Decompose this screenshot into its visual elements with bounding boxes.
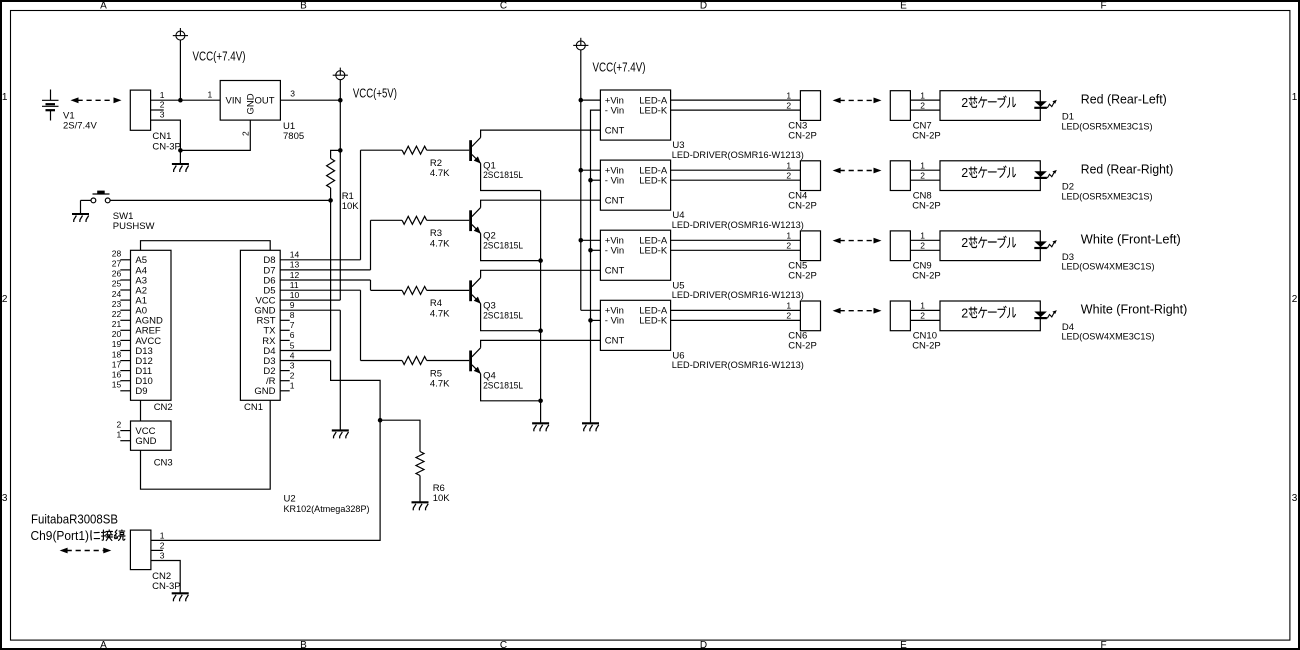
dashed arrow CN3 to CN7 bbox=[833, 98, 882, 104]
dashed arrow CN6 to CN10 bbox=[833, 308, 882, 314]
svg-text:2: 2 bbox=[786, 311, 791, 321]
wire U3 LED-A to CN3 bbox=[671, 99, 801, 101]
svg-text:18: 18 bbox=[112, 349, 122, 359]
svg-text:1: 1 bbox=[786, 90, 791, 100]
svg-text:LED(OSR5XME3C1S): LED(OSR5XME3C1S) bbox=[1062, 191, 1153, 202]
cable box (2-core cable) row 4 bbox=[940, 301, 1040, 331]
emitter ground bus bbox=[540, 191, 542, 423]
svg-text:4.7K: 4.7K bbox=[430, 379, 450, 390]
wire U1 GND pin2 to gnd node bbox=[180, 120, 250, 150]
connector CN3 box bbox=[800, 91, 820, 121]
LED driver U6 box bbox=[600, 300, 670, 350]
wire U5 LED-K to CN5 bbox=[671, 249, 801, 251]
wire SW1 to R1 node bbox=[110, 199, 331, 201]
wire Q2 collector to U4 CNT bbox=[481, 200, 601, 207]
svg-text:9: 9 bbox=[290, 300, 295, 310]
resistor R1 10K bbox=[331, 150, 341, 158]
link CN2 to CN3 bbox=[140, 400, 142, 421]
wire -Vin bus to U4 bbox=[591, 179, 601, 181]
stub CN3 pin1 bbox=[120, 440, 130, 442]
junction +7.4V at U5 bbox=[579, 238, 584, 243]
svg-text:CN-2P: CN-2P bbox=[912, 271, 941, 282]
svg-text:LED-K: LED-K bbox=[639, 176, 668, 187]
svg-text:10K: 10K bbox=[433, 493, 451, 504]
svg-text:1: 1 bbox=[208, 90, 213, 100]
dashed arrow CN5 to CN9 bbox=[833, 238, 882, 244]
wire Q4 emitter to gnd bus bbox=[481, 374, 541, 401]
svg-text:17: 17 bbox=[112, 359, 122, 369]
MCU header CN3 box bbox=[131, 421, 172, 450]
MCU header CN2 box bbox=[131, 250, 172, 400]
svg-text:CN2: CN2 bbox=[154, 402, 173, 413]
power flag VCC(+7.4V) left bbox=[173, 28, 188, 40]
svg-text:CN-2P: CN-2P bbox=[912, 200, 941, 211]
svg-text:- Vin: - Vin bbox=[605, 105, 624, 116]
connector CN1 (CN-3P) box bbox=[130, 90, 150, 130]
stub CN3 pin2 bbox=[120, 430, 130, 432]
svg-text:13: 13 bbox=[290, 260, 300, 270]
connector CN8 box bbox=[890, 161, 910, 191]
svg-text:KR102(Atmega328P): KR102(Atmega328P) bbox=[284, 504, 370, 515]
stub CN2 pin 22 bbox=[120, 319, 130, 321]
svg-text:25: 25 bbox=[112, 279, 122, 289]
resistor R6 10K bbox=[380, 420, 420, 451]
stub CN2 pin 23 bbox=[120, 309, 130, 311]
svg-text:F: F bbox=[1100, 1, 1106, 12]
svg-text:2: 2 bbox=[961, 236, 968, 250]
cable box (2-core cable) row 1 bbox=[940, 91, 1040, 121]
wire CN8 pin2 to cable bbox=[910, 179, 940, 181]
wire CN10 pin1 to cable bbox=[910, 309, 940, 311]
svg-text:1: 1 bbox=[920, 231, 925, 241]
ground under CN2 bbox=[172, 593, 189, 601]
svg-text:2: 2 bbox=[786, 100, 791, 110]
svg-text:E: E bbox=[900, 640, 907, 650]
svg-text:2: 2 bbox=[920, 100, 925, 110]
wire D8 riser to R2 bbox=[360, 150, 362, 260]
svg-text:LED-DRIVER(OSMR16-W1213): LED-DRIVER(OSMR16-W1213) bbox=[672, 290, 804, 301]
LED D1 symbol bbox=[1034, 101, 1047, 107]
svg-text:24: 24 bbox=[112, 289, 122, 299]
svg-text:VCC(+7.4V): VCC(+7.4V) bbox=[593, 60, 646, 74]
svg-text:2: 2 bbox=[961, 96, 968, 110]
svg-text:LED(OSW4XME3C1S): LED(OSW4XME3C1S) bbox=[1062, 262, 1155, 273]
svg-text:3: 3 bbox=[160, 551, 165, 561]
stub CN2 pin 20 bbox=[120, 339, 130, 341]
junction +5V out bbox=[338, 98, 343, 103]
wire D5 pin11 bbox=[280, 289, 360, 291]
LED driver U4 box bbox=[600, 160, 670, 210]
svg-text:2: 2 bbox=[961, 306, 968, 320]
svg-text:4.7K: 4.7K bbox=[430, 168, 450, 179]
wire Q3 collector to U5 CNT bbox=[481, 270, 601, 277]
svg-text:28: 28 bbox=[112, 249, 122, 259]
LED driver U3 box bbox=[600, 90, 670, 140]
cable box (2-core cable) row 2 bbox=[940, 161, 1040, 191]
wire -Vin bus to U6 bbox=[591, 319, 601, 321]
svg-text:E: E bbox=[900, 1, 907, 12]
svg-text:White (Front-Right): White (Front-Right) bbox=[1081, 303, 1188, 317]
junction Q3 emitter bbox=[538, 328, 543, 333]
svg-text:OUT: OUT bbox=[254, 95, 274, 106]
wire D7 pin13 bbox=[280, 269, 370, 271]
junction R1/SW1/D4 node bbox=[328, 198, 333, 203]
dashed arrow battery to CN1 bbox=[71, 97, 122, 103]
wire CN7 pin2 to cable bbox=[910, 109, 940, 111]
wire CN10 pin2 to cable bbox=[910, 319, 940, 321]
LED D3 symbol bbox=[1034, 241, 1047, 247]
wire VCC riser down to node bbox=[179, 40, 181, 100]
svg-text:1: 1 bbox=[1292, 92, 1298, 103]
connector CN2 (receiver) box bbox=[130, 530, 151, 570]
svg-text:Red (Rear-Left): Red (Rear-Left) bbox=[1081, 92, 1167, 106]
svg-text:10K: 10K bbox=[342, 201, 360, 212]
wire D4 pin5 bbox=[280, 350, 330, 352]
svg-text:- Vin: - Vin bbox=[605, 246, 624, 257]
wire Q1 emitter to gnd bus bbox=[481, 163, 541, 190]
transistor Q4 2SC1815L bbox=[469, 351, 472, 372]
wire D3 pin4 bbox=[280, 360, 330, 362]
power flag VCC(+7.4V) right bbox=[573, 38, 588, 50]
wire D6 pin12 bbox=[280, 279, 370, 281]
resistor R2 4.7K bbox=[361, 149, 403, 151]
connector CN5 box bbox=[800, 231, 820, 261]
svg-text:20: 20 bbox=[112, 329, 122, 339]
LED D2 symbol bbox=[1034, 171, 1047, 177]
svg-text:2SC1815L: 2SC1815L bbox=[483, 381, 523, 392]
battery V1 bbox=[42, 90, 59, 121]
transistor Q2 2SC1815L bbox=[469, 210, 472, 231]
resistor R5 4.7K bbox=[361, 360, 403, 362]
wire +7.4V rail down bbox=[580, 50, 582, 310]
stub CN2 pin 21 bbox=[120, 329, 130, 331]
svg-text:1: 1 bbox=[160, 90, 165, 100]
svg-text:D9: D9 bbox=[135, 386, 147, 397]
stub CN2 pin 19 bbox=[120, 350, 130, 352]
junction Q2 emitter bbox=[538, 258, 543, 263]
svg-text:3: 3 bbox=[1292, 493, 1298, 504]
stub CN2 pin2 bbox=[151, 549, 163, 551]
stub CN1 pin 1 bbox=[280, 390, 290, 392]
wire CN9 pin1 to cable bbox=[910, 239, 940, 241]
junction R6 tap bbox=[378, 418, 383, 423]
-Vin ground bus bbox=[591, 110, 601, 423]
svg-text:LED(OSR5XME3C1S): LED(OSR5XME3C1S) bbox=[1062, 121, 1153, 132]
wire GND pin9 bbox=[280, 309, 340, 311]
svg-text:7805: 7805 bbox=[283, 131, 304, 142]
LED driver U5 box bbox=[600, 230, 670, 280]
wire Q2 emitter to gnd bus bbox=[481, 233, 541, 260]
svg-text:6: 6 bbox=[290, 330, 295, 340]
stub CN1 pin 2 bbox=[280, 380, 290, 382]
svg-text:CNT: CNT bbox=[605, 266, 625, 277]
svg-text:12: 12 bbox=[290, 270, 300, 280]
svg-text:- Vin: - Vin bbox=[605, 316, 624, 327]
junction +5V / R1 bbox=[338, 148, 343, 153]
svg-text:CN-2P: CN-2P bbox=[788, 271, 817, 282]
cable box (2-core cable) row 3 bbox=[940, 231, 1040, 261]
wire U6 LED-K to CN6 bbox=[671, 319, 801, 321]
svg-text:VCC(+5V): VCC(+5V) bbox=[353, 86, 397, 100]
wire CN2 pin3 to ground bbox=[151, 561, 180, 593]
stub CN1 pin 8 bbox=[280, 319, 290, 321]
svg-text:D: D bbox=[700, 1, 707, 12]
svg-text:7: 7 bbox=[290, 320, 295, 330]
wire CN9 pin2 to cable bbox=[910, 249, 940, 251]
wire Q4 collector to U6 CNT bbox=[481, 340, 601, 347]
svg-text:16: 16 bbox=[112, 369, 122, 379]
svg-text:1: 1 bbox=[160, 531, 165, 541]
svg-text:2SC1815L: 2SC1815L bbox=[483, 240, 523, 251]
svg-text:4: 4 bbox=[290, 350, 295, 360]
svg-text:14: 14 bbox=[290, 250, 300, 260]
text に接続 (drawn glyphs) bbox=[91, 530, 125, 541]
wire +7.4V to U3 +Vin bbox=[581, 99, 601, 101]
wire SW1 node down to D4 bbox=[330, 200, 332, 350]
svg-text:CN-2P: CN-2P bbox=[912, 341, 941, 352]
connector CN6 box bbox=[800, 301, 820, 331]
svg-text:3: 3 bbox=[2, 493, 8, 504]
svg-text:1: 1 bbox=[786, 301, 791, 311]
svg-text:CN-2P: CN-2P bbox=[788, 130, 817, 141]
svg-text:A: A bbox=[100, 1, 107, 12]
connector CN7 box bbox=[890, 91, 910, 121]
svg-text:26: 26 bbox=[112, 269, 122, 279]
svg-text:VCC(+7.4V): VCC(+7.4V) bbox=[193, 50, 246, 64]
svg-text:CN-2P: CN-2P bbox=[788, 200, 817, 211]
svg-text:1: 1 bbox=[920, 90, 925, 100]
junction -Vin at U6 bbox=[588, 318, 593, 323]
svg-text:White (Front-Left): White (Front-Left) bbox=[1081, 233, 1181, 247]
junction -Vin at U5 bbox=[588, 248, 593, 253]
svg-text:1: 1 bbox=[920, 160, 925, 170]
wire CN7 pin1 to cable bbox=[910, 99, 940, 101]
connector CN9 box bbox=[890, 231, 910, 261]
svg-text:CNT: CNT bbox=[605, 336, 625, 347]
svg-text:LED-DRIVER(OSMR16-W1213): LED-DRIVER(OSMR16-W1213) bbox=[672, 150, 804, 161]
transistor Q1 2SC1815L bbox=[469, 140, 472, 161]
wire +7.4V to U6 +Vin bbox=[581, 309, 601, 311]
svg-text:4.7K: 4.7K bbox=[430, 308, 450, 319]
svg-text:1: 1 bbox=[290, 381, 295, 391]
ground under R6 bbox=[412, 502, 429, 510]
ground under CN1 bbox=[172, 164, 189, 172]
junction GND node bbox=[178, 148, 183, 153]
svg-text:3: 3 bbox=[290, 360, 295, 370]
wire CN1 pin3 to GND node bbox=[151, 120, 181, 150]
svg-text:LED-K: LED-K bbox=[639, 246, 668, 257]
svg-text:CNT: CNT bbox=[605, 125, 625, 136]
wire U1 OUT to +5V node bbox=[280, 99, 340, 101]
svg-text:11: 11 bbox=[290, 280, 299, 290]
svg-text:LED-K: LED-K bbox=[639, 105, 668, 116]
svg-text:15: 15 bbox=[112, 380, 122, 390]
wire -Vin bus to U5 bbox=[591, 249, 601, 251]
wire +5V down to MCU VCC pin bbox=[339, 150, 341, 300]
svg-text:LED-K: LED-K bbox=[639, 316, 668, 327]
svg-text:2: 2 bbox=[290, 371, 295, 381]
svg-text:2: 2 bbox=[786, 241, 791, 251]
svg-text:2: 2 bbox=[2, 294, 8, 305]
MCU module U2 outline bottom bbox=[141, 400, 271, 489]
svg-text:1: 1 bbox=[116, 429, 121, 439]
stub CN2 pin 25 bbox=[120, 289, 130, 291]
svg-text:D: D bbox=[700, 640, 707, 650]
svg-text:Ch9(Port1): Ch9(Port1) bbox=[31, 529, 90, 543]
stub CN2 pin 15 bbox=[120, 390, 130, 392]
svg-text:2SC1815L: 2SC1815L bbox=[483, 170, 523, 181]
wire Q3 emitter to gnd bus bbox=[481, 304, 541, 331]
wire U4 LED-K to CN4 bbox=[671, 179, 801, 181]
stub CN1 pin 6 bbox=[280, 339, 290, 341]
wire D7 riser to R3 bbox=[370, 220, 372, 270]
ground emitter bus bbox=[532, 423, 549, 431]
junction -Vin at U4 bbox=[588, 178, 593, 183]
svg-text:1: 1 bbox=[2, 92, 8, 103]
svg-text:1: 1 bbox=[920, 301, 925, 311]
svg-text:FuitabaR3008SB: FuitabaR3008SB bbox=[31, 513, 118, 527]
svg-text:A: A bbox=[100, 640, 107, 650]
stub CN2 pin 18 bbox=[120, 360, 130, 362]
ground MCU GND bbox=[332, 430, 349, 438]
stub CN2 pin 24 bbox=[120, 299, 130, 301]
svg-text:LED-DRIVER(OSMR16-W1213): LED-DRIVER(OSMR16-W1213) bbox=[672, 360, 804, 371]
svg-text:LED-DRIVER(OSMR16-W1213): LED-DRIVER(OSMR16-W1213) bbox=[672, 220, 804, 231]
regulator U1 7805 box bbox=[220, 81, 280, 121]
svg-text:2: 2 bbox=[961, 166, 968, 180]
svg-text:- Vin: - Vin bbox=[605, 176, 624, 187]
svg-text:GND: GND bbox=[245, 93, 256, 114]
svg-text:22: 22 bbox=[112, 309, 122, 319]
svg-text:10: 10 bbox=[290, 290, 300, 300]
svg-text:CN3: CN3 bbox=[154, 457, 173, 468]
svg-text:CN-3P: CN-3P bbox=[152, 581, 181, 592]
stub CN2 pin 26 bbox=[120, 279, 130, 281]
svg-text:8: 8 bbox=[290, 310, 295, 320]
wire SW1 left to gnd bbox=[81, 199, 92, 201]
connector CN10 box bbox=[890, 301, 910, 331]
svg-text:CN-3P: CN-3P bbox=[152, 141, 181, 152]
transistor Q3 2SC1815L bbox=[469, 280, 472, 301]
ground under SW1 bbox=[72, 214, 89, 222]
svg-text:VIN: VIN bbox=[226, 95, 242, 106]
wire CN8 pin1 to cable bbox=[910, 169, 940, 171]
wire U3 LED-K to CN3 bbox=[671, 109, 801, 111]
svg-text:4.7K: 4.7K bbox=[430, 238, 450, 249]
wire +7.4V to U5 +Vin bbox=[581, 239, 601, 241]
stub CN1 pin 7 bbox=[280, 329, 290, 331]
svg-text:5: 5 bbox=[290, 340, 295, 350]
resistor R3 4.7K bbox=[371, 219, 403, 221]
wire +7.4V to U4 +Vin bbox=[581, 169, 601, 171]
wire D5 drop to R5 bbox=[360, 290, 362, 360]
stub CN1 pin2 bbox=[151, 109, 164, 111]
svg-text:2: 2 bbox=[240, 131, 250, 136]
svg-text:2: 2 bbox=[160, 100, 165, 110]
svg-text:CNT: CNT bbox=[605, 196, 625, 207]
wire Q1 collector to U3 CNT bbox=[481, 130, 601, 137]
stub CN2 pin 28 bbox=[120, 259, 130, 261]
wire U4 LED-A to CN4 bbox=[671, 169, 801, 171]
wire U6 LED-A to CN6 bbox=[671, 309, 801, 311]
svg-text:3: 3 bbox=[160, 110, 165, 120]
svg-text:3: 3 bbox=[290, 88, 295, 98]
svg-text:2SC1815L: 2SC1815L bbox=[483, 310, 523, 321]
svg-text:GND: GND bbox=[254, 386, 275, 397]
dashed arrow CN4 to CN8 bbox=[833, 168, 882, 174]
svg-text:2: 2 bbox=[116, 419, 121, 429]
stub CN2 pin 27 bbox=[120, 269, 130, 271]
svg-text:C: C bbox=[500, 640, 507, 650]
svg-text:1: 1 bbox=[786, 231, 791, 241]
power flag VCC(+5V) bbox=[333, 68, 348, 80]
junction +7.4V at U3 bbox=[579, 98, 584, 103]
svg-text:C: C bbox=[500, 1, 507, 12]
junction +7.4V at U4 bbox=[579, 168, 584, 173]
wire D6 drop to R4 bbox=[370, 280, 372, 290]
wire GND node down bbox=[179, 150, 181, 164]
svg-text:2: 2 bbox=[1292, 294, 1298, 305]
svg-text:PUSHSW: PUSHSW bbox=[113, 221, 155, 232]
svg-text:19: 19 bbox=[112, 339, 122, 349]
svg-text:2: 2 bbox=[786, 171, 791, 181]
svg-text:21: 21 bbox=[112, 319, 122, 329]
svg-text:CN-2P: CN-2P bbox=[912, 130, 941, 141]
MCU module U2 outline bridge top bbox=[141, 241, 271, 251]
wire GND pin9 down bbox=[339, 310, 341, 430]
svg-text:F: F bbox=[1100, 640, 1106, 650]
stub CN2 pin 17 bbox=[120, 370, 130, 372]
dashed arrow receiver to CN2 bbox=[60, 548, 112, 554]
svg-text:23: 23 bbox=[112, 299, 122, 309]
wire node to U1 VIN bbox=[180, 99, 220, 101]
svg-text:1: 1 bbox=[786, 160, 791, 170]
wire CN1 pin1 to VIN node bbox=[151, 99, 181, 101]
svg-text:2S/7.4V: 2S/7.4V bbox=[63, 120, 97, 131]
wire U5 LED-A to CN5 bbox=[671, 239, 801, 241]
svg-text:27: 27 bbox=[112, 259, 122, 269]
svg-text:CN1: CN1 bbox=[244, 402, 263, 413]
svg-text:2: 2 bbox=[920, 311, 925, 321]
svg-text:LED(OSW4XME3C1S): LED(OSW4XME3C1S) bbox=[1062, 332, 1155, 343]
svg-text:CN-2P: CN-2P bbox=[788, 341, 817, 352]
ground -Vin bus bbox=[582, 423, 599, 431]
junction Q4 emitter bbox=[538, 399, 543, 404]
wire D8 pin14 bbox=[280, 259, 360, 261]
stub CN2 pin 16 bbox=[120, 380, 130, 382]
svg-text:2: 2 bbox=[920, 241, 925, 251]
wire VCC pin10 bbox=[280, 299, 340, 301]
svg-text:B: B bbox=[300, 1, 307, 12]
switch SW1 PUSHSW bbox=[91, 194, 110, 203]
wire D3 to receiver CN2 pin1 bbox=[151, 361, 380, 541]
svg-text:Red (Rear-Right): Red (Rear-Right) bbox=[1081, 163, 1174, 177]
connector CN4 box bbox=[800, 161, 820, 191]
svg-text:B: B bbox=[300, 640, 307, 650]
svg-text:2: 2 bbox=[160, 541, 165, 551]
wire +5V symbol down bbox=[339, 80, 341, 151]
resistor R4 4.7K bbox=[371, 289, 403, 291]
stub CN1 pin 3 bbox=[280, 370, 290, 372]
LED D4 symbol bbox=[1034, 312, 1047, 318]
svg-text:GND: GND bbox=[135, 436, 156, 447]
svg-text:2: 2 bbox=[920, 171, 925, 181]
junction battery node bbox=[178, 98, 183, 103]
MCU header CN1 box bbox=[240, 250, 280, 400]
